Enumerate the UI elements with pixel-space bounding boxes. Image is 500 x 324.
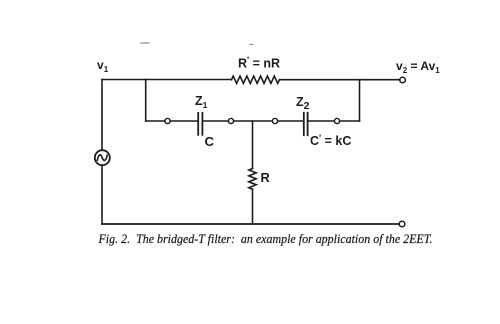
scan artifact dash [141, 42, 149, 44]
node: bottom output terminal (open circle) [399, 221, 405, 227]
wire branch segment 1 [146, 120, 165, 122]
capacitor C (plates) [198, 113, 202, 135]
wire top rail right [280, 79, 400, 81]
svg-text:C: C [205, 134, 215, 149]
wire left vertical below source [101, 165, 103, 224]
resistor R (vertical zigzag) [249, 169, 256, 190]
AC source (sine generator) [95, 150, 110, 165]
svg-text:R: R [261, 170, 270, 185]
wire R branch upper [252, 121, 254, 169]
wire branch segment 6 [309, 120, 334, 122]
node: injection point circle 3 [272, 118, 277, 123]
wire branch segment 3 [204, 120, 229, 122]
node: injection point circle 2 [228, 118, 233, 123]
wire bottom rail [102, 223, 399, 225]
capacitor C' = kC (plates) [304, 113, 308, 135]
resistor R' = nR (horizontal zigzag) [232, 76, 280, 83]
wire left bridge drop [145, 80, 147, 122]
wire top rail left [102, 79, 232, 81]
node: injection point circle 1 [165, 118, 170, 123]
wire left vertical above source [101, 80, 103, 151]
wire branch segment 2 [170, 120, 197, 122]
node: injection point circle 4 [334, 118, 339, 123]
wire right bridge drop [359, 80, 361, 121]
wire branch segment 4 (through R junction) [234, 120, 273, 122]
svg-text:Fig. 2. The bridged-T filter:: Fig. 2. The bridged-T filter: an example… [98, 231, 433, 246]
svg-text:R' = nR: R' = nR [238, 55, 280, 71]
svg-text:C' = kC: C' = kC [310, 133, 351, 148]
wire R branch lower [252, 189, 254, 224]
wire branch segment 5 [278, 120, 304, 122]
scan artifact dot [250, 44, 254, 46]
node: output terminal v2 (open circle) [400, 77, 406, 83]
svg-text:v2 = Av1: v2 = Av1 [396, 59, 440, 75]
wire branch segment 7 [340, 120, 360, 122]
